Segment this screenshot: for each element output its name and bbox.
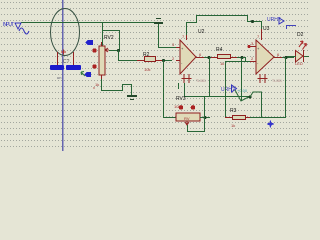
svg-text:U2: U2 bbox=[198, 29, 205, 35]
svg-text:R4: R4 bbox=[216, 47, 223, 53]
svg-text:1k: 1k bbox=[220, 61, 224, 66]
svg-text:LED: LED bbox=[295, 61, 303, 66]
svg-text:+0.00: +0.00 bbox=[237, 88, 248, 93]
svg-text:R3: R3 bbox=[230, 108, 237, 114]
svg-text:C?: C? bbox=[63, 59, 70, 65]
svg-text:10k: 10k bbox=[144, 67, 150, 72]
svg-text:D2: D2 bbox=[297, 32, 304, 38]
svg-text:un: un bbox=[57, 75, 61, 80]
svg-text:TL081: TL081 bbox=[196, 79, 206, 83]
svg-text:RV3: RV3 bbox=[176, 96, 186, 102]
svg-text:RV: RV bbox=[184, 116, 190, 121]
svg-text:U3: U3 bbox=[263, 26, 270, 32]
svg-text:RV2: RV2 bbox=[104, 35, 114, 41]
svg-text:1k: 1k bbox=[231, 123, 235, 128]
svg-text:1k: 1k bbox=[95, 82, 99, 87]
svg-text:URH?: URH? bbox=[221, 87, 235, 93]
svg-text:INPUT: INPUT bbox=[3, 22, 14, 28]
svg-text:TL081: TL081 bbox=[272, 79, 282, 83]
